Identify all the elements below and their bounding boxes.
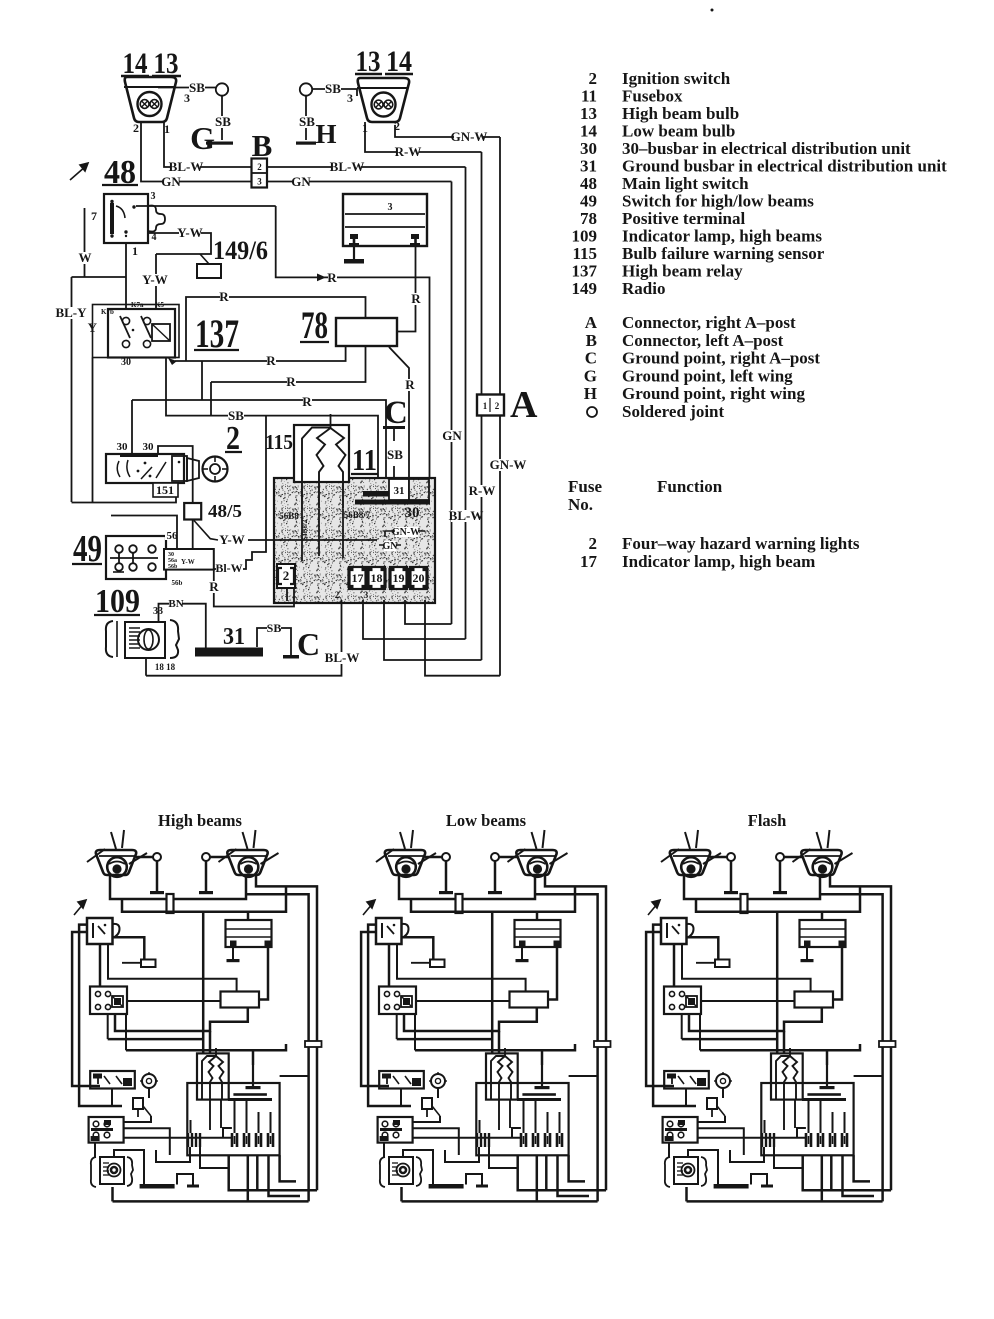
svg-text:Fuse: Fuse [568,477,602,496]
label R [220,291,229,303]
soldered joint (right) [300,83,312,95]
wire R from 49 connector to fuse 2 [214,570,294,607]
svg-text:C: C [384,395,408,431]
switch 49 contacts [115,545,123,553]
svg-text:7: 7 [91,209,97,223]
label R [267,355,276,367]
label R-W [471,485,493,497]
svg-text:20: 20 [413,571,425,585]
radio 149/6 box [197,264,221,278]
svg-text:Ground point, right wing: Ground point, right wing [622,384,805,403]
label 56 [165,530,178,540]
connector profile right of 48 [148,206,165,232]
label R [412,293,421,305]
svg-text:R: R [302,394,312,409]
fusebox / electrical distribution unit [274,478,435,603]
svg-text:BL-W: BL-W [330,159,365,174]
svg-text:2: 2 [495,401,500,411]
svg-text:56B8: 56B8 [279,511,299,521]
label BL-W [327,652,356,664]
svg-text:30: 30 [580,139,597,158]
svg-text:30–busbar in electrical distri: 30–busbar in electrical distribution uni… [622,139,911,158]
wire Y-W from 48/5 [194,521,218,541]
svg-text:Switch for high/low beams: Switch for high/low beams [622,192,814,211]
svg-text:BL-W: BL-W [325,650,360,665]
svg-text:SB: SB [299,114,315,129]
svg-text:Ground busbar in electrical di: Ground busbar in electrical distribution… [622,157,947,176]
svg-text:151: 151 [156,483,174,497]
headlamp unit right (bulbs 13/14) [358,78,409,122]
svg-text:BL-Y: BL-Y [55,305,87,320]
wire R-W right headlamp pin1 [365,122,482,152]
label GN-W [493,459,522,471]
svg-text:3: 3 [151,191,156,202]
svg-text:R: R [219,289,229,304]
svg-text:GN: GN [442,428,462,443]
svg-text:56b: 56b [172,579,183,587]
wire Y-W from 48 pin4 [148,233,211,254]
bulb filaments right [374,100,383,109]
svg-text:R: R [405,377,415,392]
wire SB down to ground H [305,96,307,140]
svg-text:A: A [510,384,538,426]
left terminal bobbin [350,234,358,239]
label R [328,272,337,284]
svg-text:R-W: R-W [395,144,422,159]
switch 49 (high/low beam) box [106,536,166,579]
label GN [444,430,460,442]
ground point G, left wing [206,142,233,145]
wire R-W vertical right side [481,152,483,660]
wire BL-W connector B to fusebox [267,166,466,168]
terminal box right of 31 [409,479,429,500]
svg-text:149/6: 149/6 [213,236,268,265]
wire R to 78 bottom [211,346,366,382]
svg-text:Positive terminal: Positive terminal [622,209,745,228]
sensor legs into fusebox [301,509,303,561]
svg-text:No.: No. [568,495,593,514]
wire under ignition switch [72,497,177,503]
wire GN vertical right side [451,182,453,625]
svg-text:11: 11 [581,87,597,106]
svg-text:31: 31 [394,485,405,497]
connector box on 49 [164,549,214,570]
label BN [169,598,182,608]
label Y-W [221,534,243,546]
label GN-W [395,527,418,537]
wire GN-W vertical right side [499,137,501,676]
svg-text:W: W [79,250,92,265]
page speck [711,9,714,12]
fuse terminal 19 [390,567,407,589]
svg-text:48/5: 48/5 [208,501,242,521]
svg-text:GN: GN [291,174,311,189]
label Y-W [144,274,166,286]
svg-text:18 18: 18 18 [155,662,176,672]
sensor 115 zigzag element [317,428,331,509]
svg-text:56b: 56b [168,564,178,570]
wire SB from left headlamp pin 3 [158,87,216,89]
svg-text:18: 18 [371,571,383,585]
label Bl-W [216,563,243,574]
wire to junction box 48/5 [158,446,193,503]
svg-text:Y-W: Y-W [142,272,168,287]
svg-text:78: 78 [301,304,328,347]
svg-text:Indicator lamp, high beams: Indicator lamp, high beams [622,227,822,246]
svg-text:17: 17 [580,552,598,571]
label GN [293,176,309,188]
svg-text:SB: SB [325,81,341,96]
fuse terminal 18 [368,567,385,589]
svg-text:GN-W: GN-W [392,527,420,538]
label GN-W [454,131,483,143]
svg-text:Four–way hazard warning lights: Four–way hazard warning lights [622,534,860,553]
svg-text:R-W: R-W [469,483,496,498]
label SB [228,410,244,422]
svg-text:48: 48 [580,174,597,193]
high beam relay 137 box [108,309,175,358]
lamp symbol with grill [138,629,159,650]
svg-text:Y-W: Y-W [219,532,245,547]
fuse terminal 17 [349,567,366,589]
wire Y down to ignition switch [92,358,94,503]
wire GN-W right headlamp pin2 [395,125,500,137]
label SB [267,623,281,634]
label R [406,379,415,391]
wire Y-W into fusebox [248,539,377,541]
wire to radio 149/6 [200,254,209,264]
svg-text:GN-W: GN-W [490,457,527,472]
svg-text:17: 17 [352,571,364,585]
svg-text:30: 30 [143,441,155,453]
label GN [163,176,179,188]
svg-text:Bulb failure warning sensor: Bulb failure warning sensor [622,244,825,263]
svg-text:Radio: Radio [622,279,665,298]
svg-text:30: 30 [121,357,131,368]
svg-text:56B8/7: 56B8/7 [344,510,371,520]
positive terminal 78 box [336,318,397,346]
wire GN-W to fuse terminal [425,600,500,676]
headlamp unit left (bulbs 13/14) [125,77,176,122]
label Y-W [179,227,201,239]
terminal 31 box [389,479,409,500]
svg-text:A: A [585,313,598,332]
wire BL-Y down to ignition switch [71,277,73,502]
label BL-W [451,510,480,522]
fuse terminal 20 [410,567,427,589]
ground point C (bottom) [283,655,299,659]
svg-text:R: R [411,291,421,306]
label W [81,252,90,264]
ignition key symbol [203,457,228,482]
svg-text:Function: Function [657,477,723,496]
ignition switch 2 box [106,454,184,483]
svg-text:14: 14 [580,122,598,141]
svg-text:115: 115 [572,244,597,263]
wire into sensor 115 [330,414,332,428]
pin 33 label [152,606,164,616]
wire R to positive feed [276,206,416,277]
svg-text:2: 2 [589,69,598,88]
svg-text:B: B [586,331,597,350]
svg-text:31: 31 [580,157,597,176]
svg-text:Indicator lamp, high beam: Indicator lamp, high beam [622,552,815,571]
connector B, left A-post [252,159,268,188]
svg-text:Main light switch: Main light switch [622,174,749,193]
svg-text:Connector, right A–post: Connector, right A–post [622,313,796,332]
relay 137 outer connector box [93,305,180,358]
30-busbar bar [355,500,430,505]
svg-text:K7a: K7a [131,301,144,309]
wire GN connector B to fusebox [267,181,452,183]
wire GN-W hook in fusebox [385,531,425,537]
wire BL-W from fusebox to indicator lamp 109 [146,600,342,676]
151 designation box [153,483,178,497]
svg-text:R: R [266,353,276,368]
label BL-W [171,161,200,173]
svg-text:BL-W: BL-W [449,508,484,523]
ground point C symbol [383,426,405,429]
svg-text:3: 3 [257,177,262,187]
svg-text:2: 2 [133,121,139,135]
switch arrow mark left of 48 [70,163,88,180]
bulb failure warning sensor 115 box [294,425,349,482]
wire SB from right headlamp pin 3 [312,88,357,90]
label SB [215,116,231,128]
indicator lamp 109 right bracket [170,620,179,658]
label R [287,376,296,388]
svg-text:Fusebox: Fusebox [622,87,683,106]
label R [303,396,312,408]
svg-text:R: R [286,374,296,389]
svg-text:1: 1 [483,401,488,411]
svg-text:2: 2 [589,534,598,553]
svg-text:1: 1 [132,244,138,258]
svg-text:C: C [297,626,320,662]
ignition switch internals [117,460,130,477]
svg-text:R: R [327,270,337,285]
svg-text:GN: GN [383,541,399,552]
wire GN hook in fusebox [379,544,401,546]
svg-text:49: 49 [580,192,597,211]
wire 48/5 down to connector [192,520,194,550]
wire R relay to 78 terminal top [186,297,366,361]
relay 137 contacts [122,317,129,324]
wire junction below 48 [72,276,127,278]
svg-text:2: 2 [283,568,290,583]
svg-text:30: 30 [405,505,420,521]
svg-text:BN: BN [168,598,183,610]
fuse 2 terminal [277,564,295,588]
svg-text:Low beam bulb: Low beam bulb [622,122,735,141]
svg-text:C: C [585,349,597,368]
wire R feed to ignition switch and 30-busbar [132,400,386,492]
wire R from 78 down to fusebox 31 terminal [389,347,409,480]
svg-text:K5: K5 [155,301,164,309]
label SB [387,449,403,461]
svg-text:Ignition switch: Ignition switch [622,69,731,88]
main light switch 48 box [104,194,148,243]
svg-text:Ground point, right A–post: Ground point, right A–post [622,349,820,368]
wire GN to fuse terminal [405,600,452,624]
label R-W [397,146,419,158]
svg-text:2: 2 [335,590,340,600]
indicator lamp 109 housing left bracket [106,621,113,657]
svg-text:13: 13 [580,104,597,123]
connector A, right A-post [477,395,504,416]
wire BL-W left headlamp pin1 to connector B [164,122,251,167]
wire SB relay to ground busbar [166,358,378,492]
indicator lamp 109 box [125,622,165,658]
wire R relay output to 78 [175,346,346,361]
svg-text:SB: SB [267,621,282,635]
label R [210,581,219,593]
label GN [384,541,396,551]
wire R feed to 30-busbar in fusebox [416,277,430,500]
supply unit box (top middle) [343,194,427,246]
label SB [325,83,341,95]
label Y [89,322,98,334]
bulb filaments left [140,100,149,109]
wire BL-W vertical right side [465,167,467,639]
ignition connector block [172,456,187,481]
svg-text:149: 149 [572,279,598,298]
wire R branch [201,361,203,400]
soldered joint (left) [216,83,228,95]
wire BN from lamp 109 to ground busbar 31 [159,604,206,648]
wire BL-W from 49 connector up to SB junction [214,416,266,569]
svg-text:Bl-W: Bl-W [215,561,242,575]
svg-text:78: 78 [580,209,597,228]
svg-text:11: 11 [352,442,377,477]
wire Y-W down to relay 137 coil [155,254,157,309]
svg-text:SB: SB [387,447,403,462]
label SB [189,82,205,94]
junction box 48/5 [184,503,201,520]
svg-text:High beams: High beams [158,811,242,830]
svg-text:B: B [252,128,273,163]
svg-text:109: 109 [572,227,598,246]
relay 137 coil [152,324,170,341]
wire 30 feed into ignition switch [131,400,133,454]
ground busbar 31 bar [363,491,403,497]
svg-text:Flash: Flash [748,811,787,830]
svg-text:GN: GN [161,174,181,189]
svg-text:Y-W: Y-W [177,225,203,240]
wire 56 feed to switch 49 [111,516,177,550]
svg-text:2: 2 [257,162,262,172]
svg-text:31: 31 [223,624,245,650]
wire from 48 pin3 to R junction [136,205,276,207]
ground stub under left terminal [353,247,355,259]
svg-text:GN-W: GN-W [451,129,488,144]
wire from lamp 109 down [145,658,147,676]
wire BL-W to fuse terminal [363,600,466,639]
svg-text:H: H [315,119,336,149]
label BL-Y [56,307,85,319]
svg-text:G: G [190,120,215,156]
wire SB down to ground G [221,96,223,140]
svg-text:3: 3 [364,590,369,600]
svg-text:H: H [584,384,597,403]
wire R branch down [210,382,212,416]
label BL-W [332,161,361,173]
switch 48 slider bar [110,203,114,234]
svg-text:Connector, left A–post: Connector, left A–post [622,331,784,350]
svg-text:High beam relay: High beam relay [622,262,743,281]
svg-text:G: G [584,366,597,385]
ground point H, right wing [296,142,316,145]
svg-text:Ground point, left wing: Ground point, left wing [622,366,793,385]
wire R-W to fuse terminal [384,600,482,660]
svg-text:3: 3 [347,91,353,105]
svg-text:K7b: K7b [101,308,114,316]
svg-text:Soldered joint: Soldered joint [622,402,725,421]
svg-text:19: 19 [393,571,405,585]
wire 48 pin1 down to relay 137 [125,243,127,309]
svg-text:3: 3 [388,202,393,213]
svg-text:Y-W: Y-W [181,558,195,566]
svg-text:SB: SB [215,114,231,129]
svg-text:30: 30 [117,441,129,453]
wire R from right terminal down to 78 [397,247,416,332]
svg-text:137: 137 [572,262,598,281]
svg-text:115: 115 [265,430,293,454]
svg-text:SB: SB [189,80,205,95]
svg-text:High beam bulb: High beam bulb [622,104,739,123]
ground busbar 31 bar [195,648,263,657]
svg-text:Low beams: Low beams [446,811,527,830]
wire W from 48 pin7 [84,208,86,277]
label SB [299,116,315,128]
svg-text:R: R [209,579,219,594]
wire SB from C to ground busbar [393,466,395,492]
switch 48 contacts [110,200,113,203]
right terminal bobbin [411,234,419,239]
dark band on ignition switch [120,453,158,457]
wire GN left headlamp pin2 to connector B [141,122,251,182]
wire SB from busbar to ground point C [257,628,291,655]
sensor 115 inner chamber [302,428,331,510]
svg-text:BL-W: BL-W [169,159,204,174]
